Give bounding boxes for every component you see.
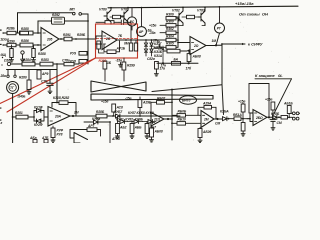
resistor R299m vertical mid [103, 61, 107, 81]
transistor VT82 [176, 7, 183, 25]
svg-text:R283: R283 [41, 58, 49, 62]
feedback A8 [70, 130, 101, 139]
wire A3 output [206, 45, 216, 47]
svg-text:АР1Б: АР1Б [116, 47, 126, 51]
node after VD85 [278, 116, 280, 118]
svg-text:2БΩ: 2БΩ [255, 116, 263, 120]
tacho terminal circles [7, 75, 16, 77]
svg-text:R306: R306 [166, 13, 174, 17]
svg-text:RБ0Б: RБ0Б [178, 110, 187, 114]
svg-text:МП: МП [70, 8, 76, 12]
svg-text:КУ1Ф: КУ1Ф [34, 106, 43, 110]
node bus y119 [171, 118, 173, 120]
labels VD77-VD80 [154, 42, 163, 58]
resistor R303a in A3 lower input [163, 49, 190, 53]
svg-text:R305: R305 [166, 42, 174, 46]
red dashed measure line [97, 38, 138, 40]
svg-text:21Ω: 21Ω [153, 118, 161, 122]
node A7 in [249, 118, 251, 120]
ground under C76 [48, 89, 52, 94]
resistor R286b bottom row [96, 114, 116, 118]
svg-text:+15в: +15в [149, 24, 156, 28]
diode VD84 series [223, 117, 235, 121]
capacitor C77 in feedback (rounded component) [52, 17, 65, 24]
resistor R286 [20, 43, 41, 47]
op-amp A6 [201, 111, 214, 128]
op-amp A3 [190, 37, 206, 55]
node feedback junction [87, 20, 89, 22]
svg-text:VT80: VT80 [99, 8, 107, 12]
svg-text:+15в: +15в [101, 100, 108, 104]
resistor R309 to A6 top [172, 114, 201, 118]
instrument circle PT [215, 7, 225, 33]
svg-text:Ω40а: Ω40а [17, 95, 26, 99]
resistor R307v below A6 [198, 128, 202, 138]
instrument circle AP [137, 8, 147, 37]
svg-text:-15в: -15в [116, 59, 123, 63]
svg-text:RБ02: RБ02 [157, 97, 165, 101]
wire bus to A3 [178, 42, 190, 44]
ground under R287 [10, 58, 14, 63]
node on out wire [145, 39, 147, 41]
svg-text:R284: R284 [23, 58, 31, 62]
resistor R284b bottom row [22, 62, 40, 66]
red callout line L1 [0, 58, 96, 104]
bottom edge partial resistor 1 [29, 136, 37, 143]
resistor R313 pullup [241, 103, 245, 119]
node after diode [228, 118, 230, 120]
resistor R296 above box [96, 21, 119, 24]
wire A5 fb drop [150, 102, 152, 113]
svg-text:28а: 28а [0, 74, 6, 78]
svg-text:0М: 0М [124, 42, 129, 46]
svg-text:К защите 0L: К защите 0L [255, 73, 283, 78]
wire A2 input bottom [96, 43, 102, 45]
diode ladder row2 d1 [118, 116, 128, 124]
node feedback drop [87, 38, 89, 40]
wire y122 with diode lower-left [84, 120, 110, 143]
svg-text:А7Б: А7Б [41, 136, 49, 140]
node A2 out 2 [130, 39, 132, 41]
node bus joins [177, 25, 179, 44]
svg-text:КУ2Ф: КУ2Ф [34, 123, 43, 127]
diode VD85 series out [273, 115, 282, 119]
svg-text:2М: 2М [203, 118, 209, 122]
input terminal 2 [2, 44, 4, 46]
svg-text:R290: R290 [7, 39, 15, 43]
svg-text:ТГ: ТГ [10, 86, 15, 90]
diode VD73 [34, 109, 44, 118]
diode column 2 [150, 40, 153, 56]
svg-text:-15в: -15в [149, 31, 156, 35]
diode ladder row2 d3 [143, 120, 157, 124]
input terminal 1 [2, 32, 4, 34]
node VT81 collector on rail [127, 7, 129, 9]
diode VD75 row [116, 114, 181, 118]
node VT83 on rail [204, 6, 206, 8]
svg-text:АББ: АББ [134, 126, 143, 130]
svg-text:АТН2: АТН2 [111, 137, 120, 141]
hourglass crossed cable upper [91, 81, 146, 92]
svg-text:А29Б: А29Б [142, 101, 152, 105]
resistor R288 vertical [32, 45, 35, 58]
node A2 out 1 [125, 39, 127, 41]
ground mid right [154, 72, 158, 77]
svg-text:С78а: С78а [62, 58, 70, 62]
node bus top [171, 89, 173, 91]
resistor R300 stack row1 [166, 17, 205, 26]
node ladder left [112, 115, 114, 117]
capacitor C85 vertical [270, 115, 276, 126]
resistor R291 in output line [64, 37, 96, 41]
tachogenerator TG circle [7, 82, 19, 94]
zener Z3 vertical [145, 122, 149, 134]
link MP terminal circles [73, 12, 82, 15]
svg-text:R299: R299 [127, 64, 135, 68]
feedback loop A2 [104, 41, 120, 52]
feedback loop A4 [52, 103, 76, 117]
instrument circle PC [127, 8, 136, 30]
resistor R314 pullup [271, 102, 275, 114]
op-amp A2 [102, 31, 117, 50]
svg-text:2Ω: 2Ω [105, 37, 111, 41]
wire x57 vertical down [56, 64, 58, 103]
node 17b [188, 62, 190, 64]
svg-text:R281: R281 [15, 111, 23, 115]
output terminal pair row1 [291, 112, 300, 115]
svg-text:КЗ1А: КЗ1А [154, 54, 163, 58]
node left edge [12, 116, 14, 118]
resistor R297 feedback [107, 50, 116, 54]
bottom row terminal circle [7, 62, 22, 65]
wire A6 out [214, 118, 222, 120]
svg-text:БА: БА [174, 58, 179, 62]
supply rail +15/-15 [108, 6, 298, 8]
svg-text:R29Б: R29Б [77, 33, 86, 37]
transistor VT80 [104, 8, 111, 25]
svg-text:RБ1А: RБ1А [233, 113, 242, 117]
resistor R299 in box right vertical 2 [134, 40, 137, 51]
resistor R317 below node vertical [241, 119, 245, 131]
wire into R input [13, 116, 16, 118]
svg-text:R304: R304 [166, 34, 174, 38]
ground under R307v [198, 138, 202, 143]
left edge small labels [0, 53, 6, 125]
wire A4 output [70, 115, 96, 117]
wire vertical x88 down [87, 39, 89, 64]
diode VD74 [34, 117, 44, 123]
svg-text:-15в: -15в [125, 97, 132, 101]
node A5 out [167, 118, 169, 120]
node R313 row [242, 118, 244, 120]
output terminal pair row2 [292, 117, 299, 120]
node A3 output [215, 44, 217, 46]
block label VNTO ellipse [180, 96, 197, 104]
svg-text:Ω1б: Ω1б [3, 59, 11, 63]
resistor R310 to A6 bottom [172, 122, 201, 126]
resistor R295 between bases [110, 15, 124, 18]
svg-text:дЩ: дЩ [1, 53, 7, 57]
ground Z3 [145, 134, 149, 139]
svg-text:РУ8: РУ8 [57, 133, 63, 137]
capacitor C76 [47, 80, 53, 90]
red annotation rectangle [96, 24, 138, 58]
svg-text:R286: R286 [21, 39, 29, 43]
wire A2 input top [96, 36, 102, 39]
ground under terminal [21, 57, 25, 62]
op-amp A4 [48, 107, 70, 127]
ground under R305b [150, 138, 154, 143]
wire A1 outer feedback loop top [18, 13, 73, 33]
svg-text:R302: R302 [166, 27, 174, 31]
wire k SIFU with arrow [216, 43, 245, 45]
resistor R279 vertical [37, 70, 41, 79]
svg-text:2М: 2М [73, 111, 79, 115]
diagonal wire from K zashchite [274, 79, 292, 114]
svg-text:к СИФУ: к СИФУ [248, 42, 263, 47]
svg-text:С7Б: С7Б [41, 80, 48, 84]
node sifu branch [221, 43, 223, 45]
svg-text:С82в: С82в [147, 57, 155, 61]
paper noise speckles (decorative, unlabeled ok) [8, 2, 293, 141]
resistor R315 series right [281, 116, 292, 120]
resistor R293 inside box vertical [97, 41, 104, 53]
svg-text:17б: 17б [186, 67, 193, 71]
resistor R305b vertical below A5 [150, 126, 154, 137]
ground Z1 [116, 134, 120, 139]
wire vertical from SIFU node down [222, 44, 224, 115]
node PT rail [219, 6, 221, 8]
svg-text:АБв: АБв [29, 136, 37, 140]
wire A5 out [164, 118, 172, 120]
svg-text:СМ: СМ [215, 122, 220, 126]
node fb [171, 101, 173, 103]
wire into A7 [247, 113, 253, 122]
svg-text:+15в: +15в [238, 100, 245, 104]
svg-text:От схемы ОН: От схемы ОН [239, 12, 268, 17]
resistor R298 in box right vertical [129, 40, 132, 51]
op-amp A7 [253, 110, 267, 126]
node VT80 collector on rail [110, 7, 112, 9]
node A7 out [268, 116, 270, 118]
svg-text:R292: R292 [52, 13, 60, 17]
node ladder 140 [139, 115, 141, 117]
node 17a [162, 62, 164, 64]
diode ladder row2 d2 [128, 120, 143, 124]
svg-text:РТ: РТ [217, 27, 222, 31]
feedback loop A7 tall [249, 84, 269, 118]
wire link to feedback node [82, 14, 89, 21]
resistor R305 stack row5 [161, 46, 178, 49]
resistor R288L vertical ladder left [112, 104, 116, 116]
node bottom row [56, 63, 58, 65]
resistor R311 A6 feedback [204, 106, 212, 110]
left edge tick marks [0, 30, 3, 121]
svg-text:КУ87 КУБ8 КУБ9: КУ87 КУБ8 КУБ9 [128, 111, 154, 115]
node A1 input 2 [37, 44, 39, 46]
wire A7 out [267, 116, 272, 118]
svg-text:+15в/-15в: +15в/-15в [235, 1, 254, 6]
svg-text:г: г [1, 121, 3, 125]
wire A1 inner feedback loop [38, 21, 88, 39]
svg-text:R28Б: R28Б [96, 110, 105, 114]
node A4 output [72, 115, 74, 117]
bottom rail wire 17a 17b [157, 62, 198, 64]
resistor R300m vertical mid [122, 58, 126, 81]
wire diodes to A4 [44, 116, 48, 118]
svg-text:РУ9: РУ9 [70, 52, 76, 56]
transistor VT83 [198, 7, 205, 25]
node A1 output [60, 38, 62, 40]
svg-text:АБ08: АБ08 [192, 55, 201, 59]
resistor R303 vertical mid right [155, 62, 159, 72]
svg-text:КУ81 КУ82 КУ8Б: КУ81 КУ82 КУ8Б [116, 117, 143, 121]
label R287b two lines [57, 129, 64, 137]
op-amp A5 [151, 113, 164, 127]
svg-text:R280: R280 [19, 76, 27, 80]
diode column 1 [144, 40, 147, 56]
terminal circle mid lower [21, 51, 24, 57]
label Ia current arrow [157, 40, 160, 47]
resistor R293L vertical ladder top [138, 97, 142, 116]
resistor R281 input [16, 115, 34, 119]
svg-text:БНТ0: БНТ0 [182, 99, 191, 103]
svg-text:RБ10: RБ10 [178, 118, 186, 122]
svg-text:205: 205 [46, 38, 53, 42]
feedback A6 loop [198, 107, 216, 119]
resistor R308 vertical [187, 51, 191, 63]
node output to box [75, 38, 77, 40]
svg-text:КУБА: КУБА [220, 110, 229, 114]
resistor R280 vertical [27, 80, 31, 90]
op-amp A8 bottom edge partial [74, 133, 88, 144]
red callout line L2 [7, 58, 96, 112]
node diode col2 top [151, 39, 153, 41]
svg-text:АР7: АР7 [87, 124, 94, 128]
svg-text:2Ω: 2Ω [193, 44, 199, 48]
svg-text:АБ08: АБ08 [154, 130, 163, 134]
node VT82 on rail [182, 7, 184, 9]
ground under R280 [27, 90, 31, 95]
resistor R277 A8 feedback [87, 128, 97, 132]
node R308 top [188, 50, 190, 52]
bottom edge partial resistor 2 [41, 136, 49, 143]
resistor R312 series [234, 117, 250, 121]
node A1 input 1 [37, 32, 39, 34]
svg-text:АР9: АР9 [41, 72, 48, 76]
svg-text:1М: 1М [212, 39, 217, 43]
svg-text:1а: 1а [158, 47, 162, 51]
svg-text:+15в: +15в [265, 98, 272, 102]
underline K zashchite [255, 78, 292, 80]
svg-text:КЗ1б,R282: КЗ1б,R282 [53, 96, 69, 100]
ground under C85 [271, 126, 275, 131]
resistor R301 stack row2 [160, 24, 178, 27]
resistor R304 stack row4 [161, 38, 178, 41]
node A6 out [216, 118, 218, 120]
svg-text:А29А: А29А [202, 102, 212, 106]
capacitor C78a in row [64, 62, 79, 65]
node y122 [109, 121, 111, 123]
svg-text:R291: R291 [63, 33, 71, 37]
capacitor C79 above box [119, 20, 131, 40]
ground below box [119, 63, 123, 68]
node bus y123 [171, 122, 173, 124]
svg-text:КУ8Б: КУ8Б [271, 112, 280, 116]
tacho wire top [7, 70, 58, 81]
ground under R317 [241, 132, 245, 137]
svg-text:20А: 20А [54, 115, 62, 119]
resistor R282 in A4 feedback [59, 101, 68, 105]
svg-text:АБ1Б: АБ1Б [283, 102, 293, 106]
node diode mid [33, 116, 35, 118]
wire TG down left edge [12, 94, 14, 144]
svg-text:АБ09: АБ09 [202, 130, 211, 134]
transistor VT81 [121, 8, 128, 25]
svg-text:КУБ7: КУБ7 [114, 110, 122, 114]
resistor R287 lower left vertical [10, 45, 13, 58]
svg-text:R285: R285 [21, 27, 29, 31]
ground under R287b [51, 138, 55, 143]
summing bus vertical [177, 18, 179, 47]
ground under R288 [32, 58, 36, 63]
resistor between VT82 VT83 [182, 15, 198, 18]
resistor R316 vertical right [287, 106, 291, 118]
svg-text:7Б: 7Б [118, 34, 123, 38]
resistor R285 [20, 31, 42, 35]
svg-text:РУ8: РУ8 [70, 60, 76, 64]
wire A2 output [117, 39, 178, 41]
resistor 6A [172, 62, 181, 66]
svg-text:R300: R300 [166, 20, 174, 24]
label 1a below with arrow [158, 46, 164, 63]
resistor R284 input small [3, 43, 20, 46]
resistor R290a row [79, 52, 88, 56]
svg-text:R288: R288 [38, 52, 46, 56]
ground Z2 [130, 134, 134, 139]
svg-text:РС: РС [130, 20, 135, 24]
resistor R287b below A4 [51, 126, 55, 138]
resistor R302 stack row3 [160, 31, 178, 34]
svg-text:17в: 17в [153, 39, 159, 43]
sloped wire to right bus [152, 85, 222, 92]
svg-text:R28Б: R28Б [7, 27, 16, 31]
resistor R283 input small [3, 31, 19, 34]
svg-text:17н: 17н [161, 64, 167, 68]
zener Z1 vertical [116, 122, 120, 134]
wire A1 output [59, 38, 64, 40]
svg-text:СМ: СМ [277, 121, 282, 125]
node out right [288, 116, 290, 118]
svg-text:АР: АР [138, 30, 144, 34]
zener Z2 vertical [130, 122, 134, 134]
svg-text:АБ2: АБ2 [119, 126, 127, 130]
op-amp A1 [41, 28, 59, 51]
cable strip lower [91, 94, 213, 100]
svg-text:VT83: VT83 [197, 8, 205, 12]
wire to PT [216, 33, 220, 45]
svg-text:КУБа: КУБа [92, 117, 100, 121]
node AP on rail [141, 7, 143, 9]
resistor R283b bottom row [40, 62, 64, 66]
resistor R302b feedback A5 [151, 101, 172, 105]
bus x172 vertical [171, 89, 173, 140]
resistor R291a row [79, 60, 88, 64]
